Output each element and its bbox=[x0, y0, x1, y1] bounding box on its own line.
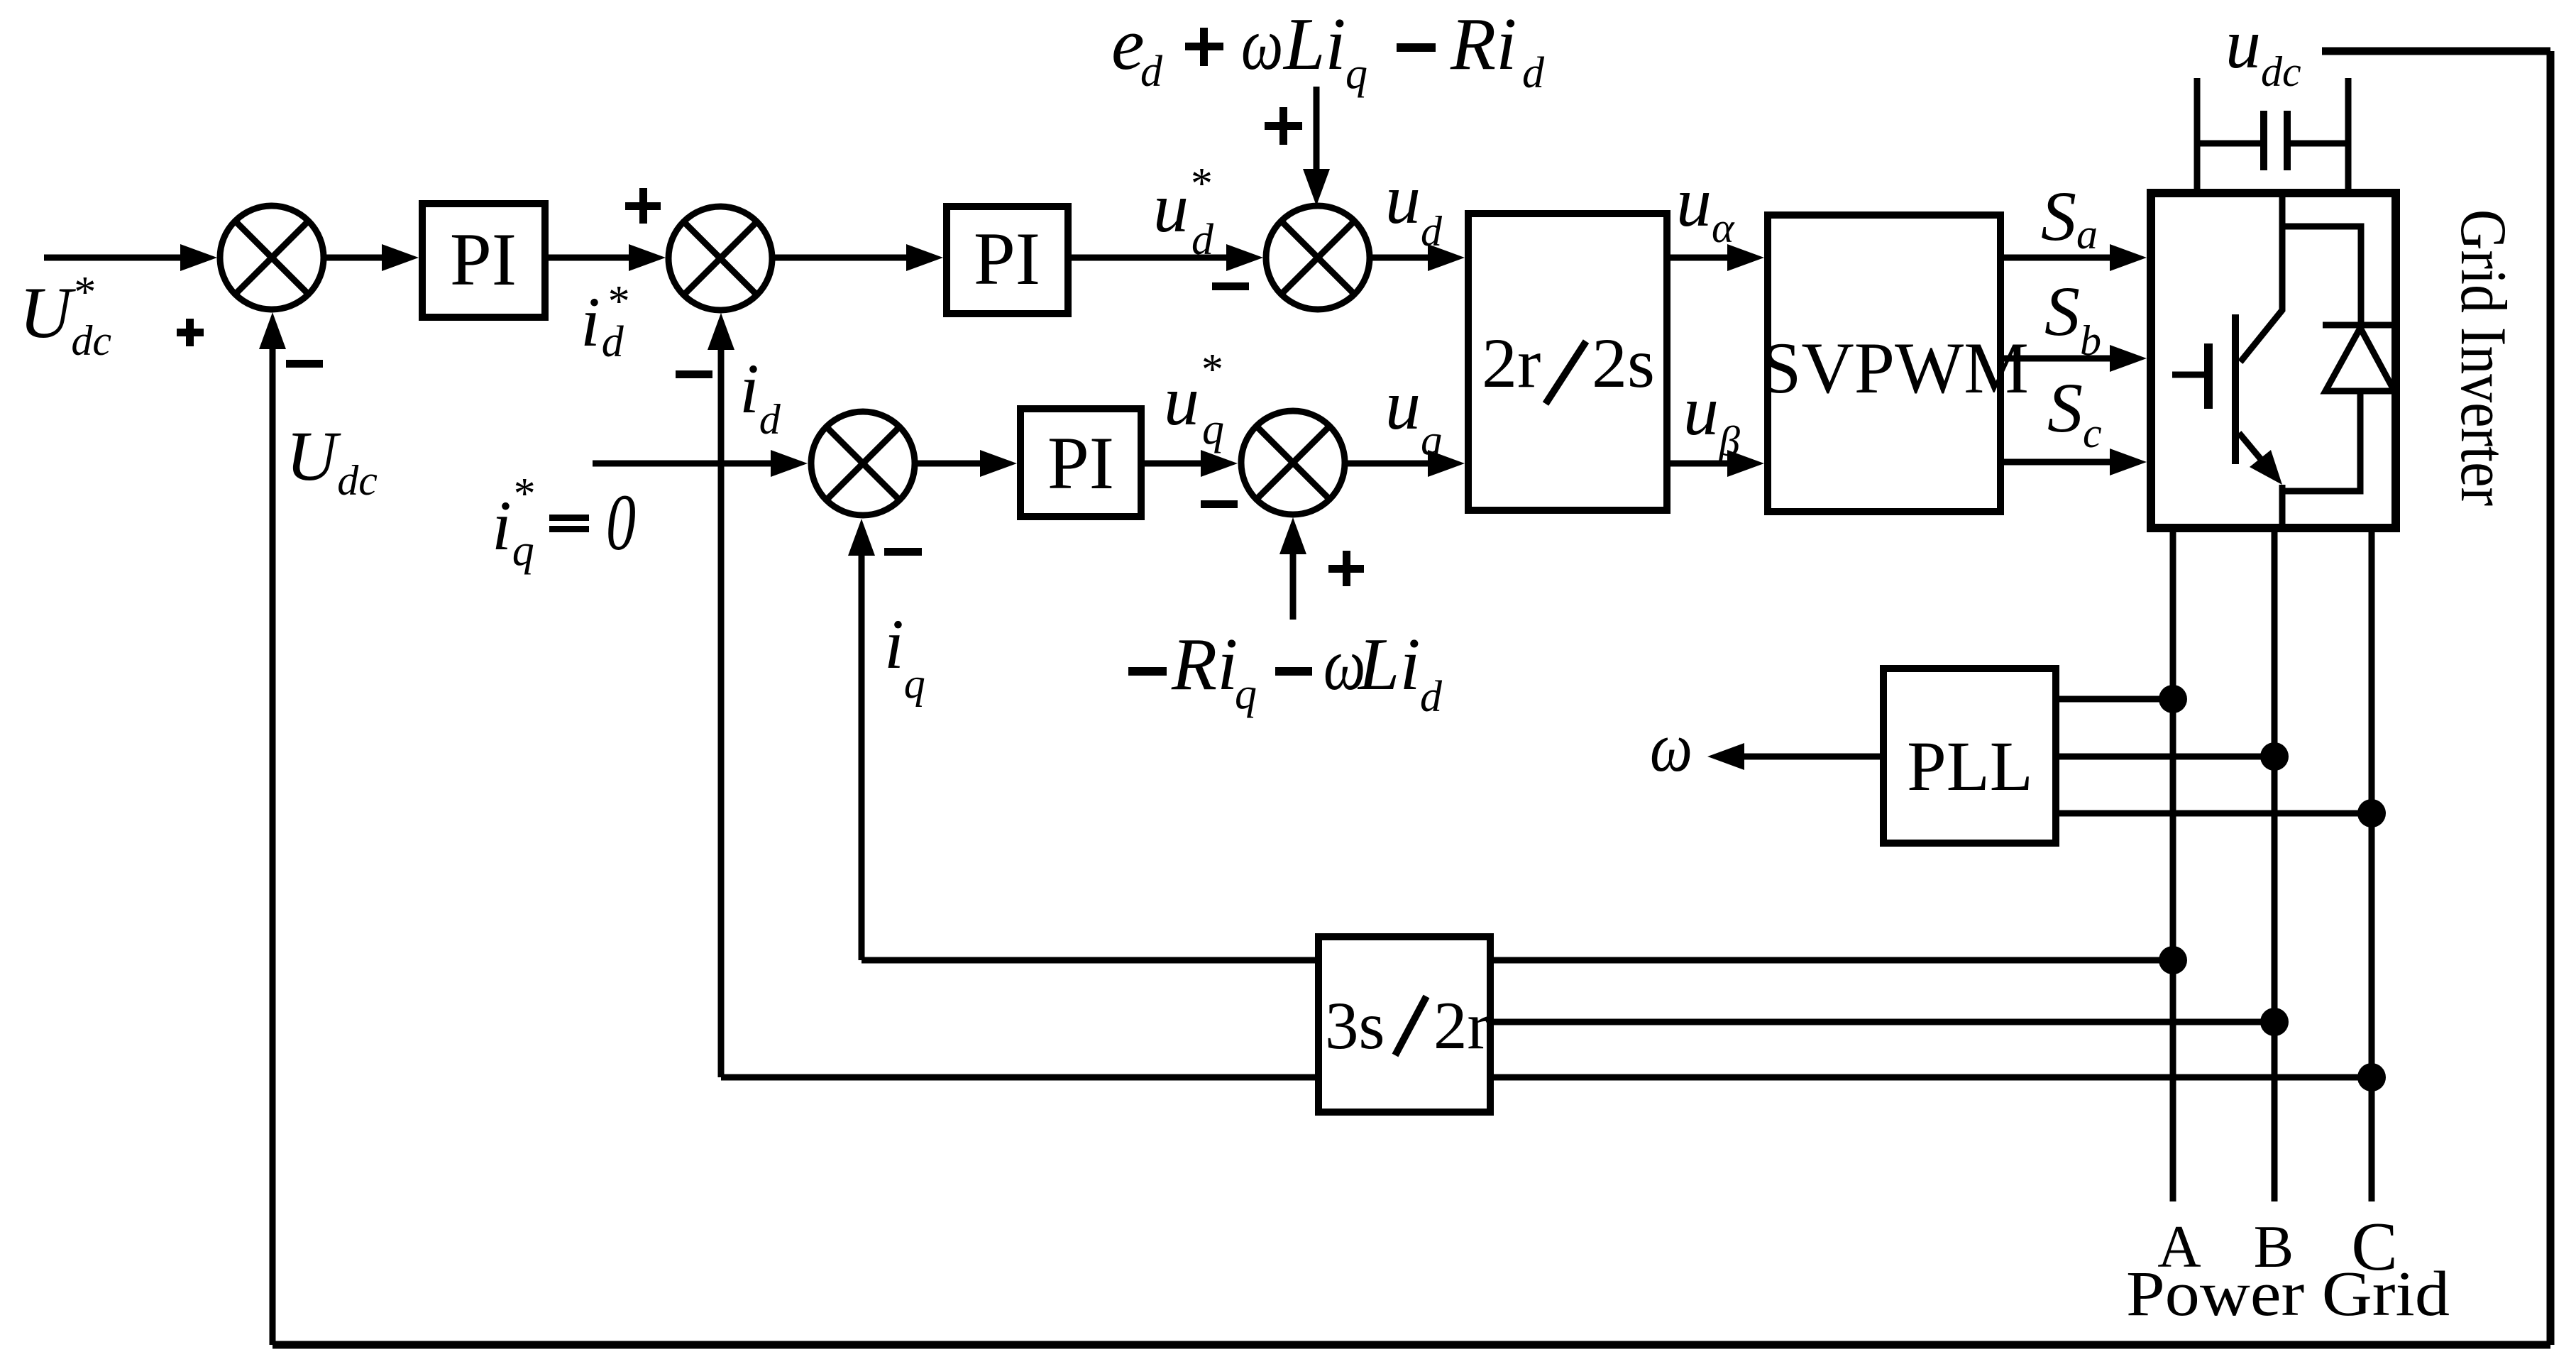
junction dot PLL-B bbox=[2260, 742, 2289, 771]
svg-text:d: d bbox=[1420, 673, 1443, 721]
svg-text:Ri: Ri bbox=[1450, 2, 1517, 85]
PLL block bbox=[1883, 669, 2056, 843]
phase A line bbox=[2170, 528, 2176, 1201]
wire id feedback horizontal bbox=[721, 1074, 1315, 1081]
junction dot PLL-C bbox=[2357, 799, 2386, 827]
formula minus sign bbox=[1397, 43, 1436, 52]
PI controller PI2 bbox=[947, 207, 1068, 314]
formula plus sign bbox=[1185, 43, 1223, 50]
slash of 3s/2r bbox=[1395, 996, 1426, 1055]
svg-text:2r: 2r bbox=[1482, 324, 1541, 402]
summing junction sum3 bbox=[1266, 206, 1370, 309]
svg-text:ω: ω bbox=[1650, 708, 1692, 787]
wire 3s/2r to phase A bbox=[1494, 957, 2173, 964]
wire PLL to phase A bbox=[2059, 696, 2173, 703]
wire Sa bbox=[2004, 255, 2115, 261]
svg-text:PI: PI bbox=[974, 217, 1040, 300]
wire feedforward up into sum5 bbox=[1290, 549, 1297, 620]
wire iq*=0 input bbox=[593, 461, 776, 467]
svg-text:Ri: Ri bbox=[1171, 622, 1238, 705]
junction dot PLL-A bbox=[2159, 685, 2187, 713]
SVPWM block bbox=[1768, 215, 2000, 512]
phase B line bbox=[2272, 528, 2278, 1201]
wire right edge bbox=[2547, 51, 2555, 1345]
diode anode lead bbox=[2282, 391, 2360, 491]
arrowhead into PI1 bbox=[382, 244, 419, 271]
arrowhead down into sum3 top bbox=[1303, 169, 1330, 206]
summing junction sum5 bbox=[1241, 411, 1345, 515]
svg-text:q: q bbox=[1345, 50, 1367, 98]
svg-text:Grid Inverter: Grid Inverter bbox=[2448, 209, 2520, 506]
arrowhead u_q into 2r/2s bbox=[1428, 450, 1465, 477]
svg-text:q: q bbox=[1235, 670, 1257, 718]
junction dot 3s2r-A bbox=[2159, 946, 2187, 974]
svg-text:C: C bbox=[2351, 1209, 2397, 1285]
wire Sc bbox=[2004, 459, 2115, 466]
equals sign bbox=[549, 515, 589, 521]
sign plus sum1 bbox=[177, 329, 204, 336]
wire input U*dc to sum1 bbox=[44, 255, 185, 261]
svg-text:A: A bbox=[2157, 1214, 2201, 1280]
IGBT emitter lead bbox=[2239, 433, 2267, 467]
arrowhead up into sum2 bottom bbox=[708, 313, 734, 350]
transform block 3s/2r bbox=[1319, 937, 1490, 1112]
svg-text:0: 0 bbox=[606, 478, 636, 567]
diode triangle bbox=[2325, 328, 2394, 391]
formula2 minus1 bbox=[1128, 667, 1167, 676]
IGBT bar bbox=[2232, 314, 2239, 464]
capacitor right lead bbox=[2290, 141, 2348, 147]
wire ed feedforward down into sum3 bbox=[1314, 87, 1320, 171]
diode top link bbox=[2282, 226, 2361, 322]
svg-text:PI: PI bbox=[450, 218, 517, 301]
wire PI1 to sum2 bbox=[549, 255, 634, 261]
wire sum3 to 2r/2s bbox=[1370, 255, 1433, 261]
svg-text:Li: Li bbox=[1282, 2, 1346, 85]
wire iq feedback vertical into sum4 bbox=[859, 551, 865, 960]
wire u_alpha bbox=[1670, 255, 1732, 261]
transform block 2r/2s bbox=[1468, 214, 1667, 510]
wire PLL to phase C bbox=[2059, 810, 2372, 817]
arrowhead u_alpha into SVPWM bbox=[1727, 244, 1764, 271]
arrowhead up into sum1 bottom bbox=[259, 312, 286, 349]
svg-text:d: d bbox=[1522, 49, 1545, 97]
junction dot 3s2r-B bbox=[2260, 1008, 2289, 1036]
IGBT gate bar bbox=[2204, 343, 2213, 409]
capacitor plate right bbox=[2284, 111, 2291, 170]
diode cathode bar bbox=[2323, 322, 2396, 329]
wire Sb bbox=[2004, 356, 2115, 362]
wire u_q sum5 to 2r/2s bbox=[1345, 461, 1433, 467]
wire omega output bbox=[1739, 754, 1880, 760]
PI controller PI3 bbox=[1020, 409, 1141, 517]
arrowhead into sum4 bbox=[771, 450, 808, 477]
wire u_beta bbox=[1670, 461, 1732, 467]
wire PLL to phase B bbox=[2059, 754, 2274, 760]
arrowhead u_beta into SVPWM bbox=[1727, 450, 1764, 477]
junction dot 3s2r-C bbox=[2357, 1063, 2386, 1091]
svg-text:e: e bbox=[1111, 2, 1145, 85]
sign minus sum4 bbox=[884, 548, 922, 556]
sign plus sum3 bbox=[1265, 122, 1302, 130]
sign minus sum2 bbox=[676, 370, 712, 378]
svg-text:PLL: PLL bbox=[1907, 727, 2033, 805]
wire 3s/2r to phase B bbox=[1494, 1019, 2274, 1025]
sign plus sum5 bbox=[1328, 565, 1364, 573]
svg-text:ω: ω bbox=[1241, 2, 1283, 85]
sign minus sum3 bbox=[1212, 282, 1249, 290]
arrowhead into sum5 bbox=[1201, 450, 1238, 477]
IGBT collector lead bbox=[2240, 193, 2282, 362]
svg-text:PI: PI bbox=[1047, 422, 1114, 505]
capacitor plate left bbox=[2260, 111, 2267, 170]
svg-text:Li: Li bbox=[1357, 622, 1421, 705]
summing junction sum4 bbox=[811, 412, 915, 515]
wire udc top bbox=[2322, 48, 2550, 55]
wire Udc feedback vertical into sum1 bbox=[270, 344, 276, 1345]
svg-text:SVPWM: SVPWM bbox=[1761, 328, 2029, 409]
grid inverter block bbox=[2151, 193, 2396, 528]
phase C line bbox=[2369, 528, 2375, 1201]
wire sum1 to PI1 bbox=[324, 255, 387, 261]
arrowhead into sum1 bbox=[180, 244, 217, 271]
capacitor left stub bbox=[2194, 78, 2201, 193]
wire PI3 to sum5 bbox=[1141, 461, 1206, 467]
summing junction sum2 bbox=[668, 207, 772, 310]
svg-text:3s: 3s bbox=[1325, 988, 1385, 1063]
sign minus sum1 bbox=[286, 360, 323, 368]
IGBT gate lead bbox=[2172, 372, 2204, 378]
wire sum2 to PI2 bbox=[772, 255, 911, 261]
svg-text:2s: 2s bbox=[1592, 324, 1655, 402]
capacitor left lead bbox=[2197, 141, 2260, 147]
formula2 minus2 bbox=[1275, 667, 1312, 676]
svg-text:B: B bbox=[2254, 1214, 2294, 1280]
svg-text:2r: 2r bbox=[1433, 988, 1490, 1063]
arrowhead into sum2 bbox=[629, 244, 666, 271]
PI controller PI1 bbox=[422, 204, 545, 317]
arrowhead into PI2 bbox=[906, 244, 943, 271]
arrowhead IGBT emitter bbox=[2250, 450, 2282, 485]
wire 3s/2r to phase C bbox=[1494, 1074, 2372, 1081]
arrowhead Sc into inverter bbox=[2110, 449, 2147, 475]
arrowhead into 2r/2s bbox=[1428, 244, 1465, 271]
arrowhead into sum3 bbox=[1226, 244, 1263, 271]
arrowhead up into sum5 bottom bbox=[1279, 517, 1306, 554]
wire id feedback vertical into sum2 bbox=[718, 345, 725, 1077]
svg-text:d: d bbox=[1140, 48, 1163, 96]
wire PI2 to sum3 bbox=[1072, 255, 1231, 261]
arrowhead into PI3 bbox=[980, 450, 1017, 477]
arrowhead up into sum4 bottom bbox=[848, 519, 875, 556]
wire sum4 to PI3 bbox=[915, 461, 985, 467]
slash of 2r/2s bbox=[1546, 341, 1586, 404]
sign minus sum5 bbox=[1201, 500, 1238, 508]
arrowhead Sb into inverter bbox=[2110, 345, 2147, 372]
wire iq feedback horizontal bbox=[862, 957, 1315, 964]
capacitor right stub bbox=[2345, 78, 2352, 193]
arrowhead omega left bbox=[1707, 743, 1744, 770]
summing junction sum1 bbox=[220, 206, 324, 309]
arrowhead Sa into inverter bbox=[2110, 244, 2147, 271]
sign plus sum2 bbox=[625, 202, 661, 210]
wire bottom Udc feedback bbox=[273, 1341, 2550, 1349]
